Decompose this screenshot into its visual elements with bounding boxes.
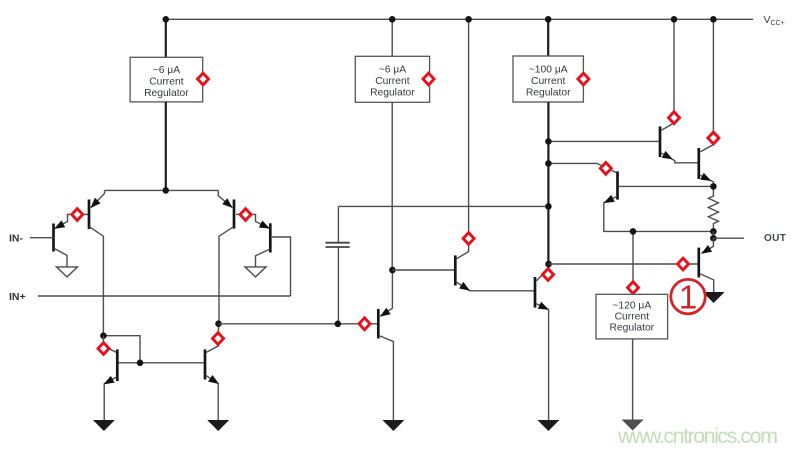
- transistor Q10 (output NPN driver): [660, 19, 698, 163]
- node mirror tie top: [100, 332, 107, 339]
- transistor Q6 (mirror right NPN): [205, 324, 221, 420]
- svg-text:IN+: IN+: [9, 291, 26, 303]
- wire node A to Q7 base: [219, 323, 378, 325]
- svg-text:IN-: IN-: [9, 233, 24, 245]
- wire I2 output: [391, 102, 393, 270]
- marker diamond I4 top: [628, 282, 639, 294]
- ground under Q13: [703, 292, 725, 303]
- wire R1 bottom to OUT node: [712, 231, 714, 238]
- node R1 top: [710, 183, 717, 190]
- ground under I4: [622, 420, 644, 431]
- svg-text:VCC+: VCC+: [764, 14, 785, 27]
- ground (open) under Q1: [57, 267, 78, 277]
- svg-text:OUT: OUT: [764, 233, 786, 244]
- svg-text:~100 μA: ~100 μA: [529, 65, 568, 76]
- transistor Q5 (mirror left NPN): [102, 336, 118, 420]
- wire mirror diode tie: [103, 336, 140, 363]
- current regulator I3 (~100 uA): [513, 56, 583, 102]
- wire Vcc+ top rail: [166, 18, 753, 20]
- wire Q12 emitter link: [548, 163, 616, 172]
- wire node B to I4: [632, 231, 634, 294]
- ground under Q6: [207, 420, 229, 431]
- node input bus / I1: [163, 187, 170, 194]
- svg-text:Regulator: Regulator: [144, 88, 189, 99]
- marker diamond I1: [198, 73, 209, 85]
- node rail I2: [389, 16, 396, 23]
- wire I4 bottom: [632, 339, 634, 420]
- current regulator I4 (~120 uA): [596, 294, 668, 339]
- transistor Q4 (IN+ follower PNP): [256, 220, 291, 296]
- node Q6 collector: [215, 320, 222, 327]
- marker diamond I2: [423, 73, 434, 85]
- marker diamond Q5: [98, 343, 109, 355]
- svg-text:Current: Current: [375, 76, 409, 87]
- ground (open) under Q4: [245, 267, 266, 277]
- node mirror base: [137, 360, 144, 367]
- wire mirror base link: [117, 362, 205, 364]
- svg-text:Regulator: Regulator: [370, 87, 415, 98]
- annotation circled 1: [671, 279, 705, 316]
- marker diamond Q3/Q4 link: [240, 209, 251, 221]
- wire input emitter bus: [105, 189, 219, 191]
- wire I1 output: [165, 102, 167, 190]
- node I3/C1: [545, 203, 552, 210]
- node I3/Q13 base: [545, 261, 552, 268]
- ground under Q7: [382, 420, 404, 431]
- resistor R1: [708, 186, 718, 231]
- wire I3 output: [547, 102, 549, 269]
- transistor Q9 (NPN): [535, 269, 551, 420]
- wire I2 top feed: [391, 19, 393, 56]
- marker diamond Q11 collector: [708, 132, 719, 144]
- node Q8 base / I2: [389, 267, 396, 274]
- marker diamond Q1/Q2 link: [72, 209, 83, 221]
- svg-text:Current: Current: [531, 76, 565, 87]
- marker diamond Q9: [543, 269, 554, 281]
- svg-text:~120 μA: ~120 μA: [612, 301, 651, 312]
- marker diamond Q6: [213, 333, 224, 345]
- marker diamond I3: [578, 73, 589, 85]
- node R1 bottom: [710, 228, 717, 235]
- svg-text:Current: Current: [615, 312, 649, 323]
- node rail Q10: [671, 16, 678, 23]
- node I3/Q10: [545, 138, 552, 145]
- svg-text:www.cntronics.com: www.cntronics.com: [617, 424, 778, 448]
- transistor Q12 (PNP): [602, 171, 714, 231]
- ground under Q5: [93, 420, 115, 431]
- node rail Q11: [710, 16, 717, 23]
- node C1 bottom: [335, 321, 342, 328]
- transistor Q2 (input PNP left): [88, 190, 105, 335]
- marker diamond Q13 base: [678, 258, 689, 270]
- IN- port: [9, 233, 54, 245]
- svg-text:Regulator: Regulator: [526, 87, 571, 98]
- current regulator I2 (~6 uA): [355, 56, 429, 102]
- svg-text:Regulator: Regulator: [609, 323, 654, 334]
- current regulator I1 (~6 uA): [130, 57, 203, 102]
- svg-text:~6 μA: ~6 μA: [153, 65, 181, 76]
- svg-text:1: 1: [679, 279, 697, 316]
- transistor Q11 (output NPN): [699, 19, 714, 186]
- node rail I1: [163, 16, 170, 23]
- svg-text:Current: Current: [149, 76, 183, 87]
- OUT port: [713, 233, 786, 244]
- wire C1 top to I3 node: [338, 205, 548, 207]
- transistor Q1 (IN- follower PNP): [52, 214, 89, 267]
- marker diamond Q12 emitter: [600, 163, 611, 175]
- transistor Q7 (PNP, second stage): [378, 270, 394, 420]
- transistor Q13 (output PNP): [549, 238, 714, 292]
- capacitor C1: [326, 206, 350, 323]
- node I3/Q12: [545, 160, 552, 167]
- svg-text:~6 μA: ~6 μA: [379, 65, 407, 76]
- watermark: [617, 424, 778, 448]
- wire I1 top feed: [165, 19, 167, 57]
- node OUT: [710, 235, 717, 242]
- node rail I3: [545, 16, 552, 23]
- ground under Q9: [537, 420, 559, 431]
- wire Q10 base: [548, 140, 658, 142]
- transistor Q3 (input PNP right): [218, 190, 269, 323]
- wire I3 top feed: [547, 19, 549, 56]
- node B: [630, 228, 637, 235]
- Vcc+ label: [764, 14, 785, 27]
- marker diamond Q10 collector: [669, 112, 680, 124]
- marker diamond Q7 base: [359, 318, 370, 330]
- node rail Q8: [465, 16, 472, 23]
- transistor Q8 (NPN gain stage): [392, 19, 534, 294]
- marker diamond Q8 collector: [463, 233, 474, 245]
- IN+ port: [9, 291, 291, 303]
